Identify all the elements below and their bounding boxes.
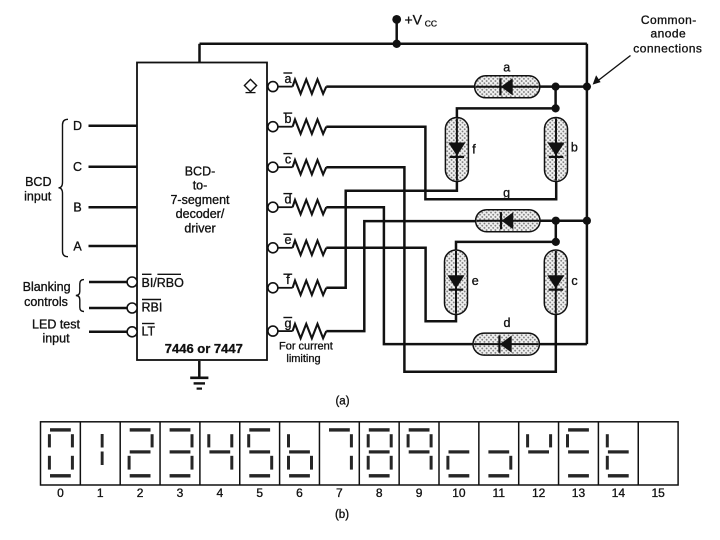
svg-text:decoder/: decoder/ <box>176 207 225 221</box>
svg-text:CC: CC <box>425 19 437 29</box>
svg-text:a: a <box>503 61 510 75</box>
svg-text:b: b <box>571 140 578 154</box>
svg-text:f: f <box>472 143 476 157</box>
svg-text:13: 13 <box>572 486 586 500</box>
svg-text:input: input <box>42 332 70 346</box>
svg-text:B: B <box>73 201 81 215</box>
svg-text:f: f <box>286 273 290 287</box>
svg-text:RBI: RBI <box>142 301 163 315</box>
svg-text:e: e <box>285 233 292 247</box>
svg-text:3: 3 <box>177 486 184 500</box>
svg-text:A: A <box>73 239 82 253</box>
svg-text:b: b <box>285 112 292 126</box>
svg-text:LED test: LED test <box>32 317 80 331</box>
svg-text:D: D <box>73 119 82 133</box>
svg-text:6: 6 <box>296 486 303 500</box>
svg-text:BCD-: BCD- <box>185 164 216 178</box>
svg-text:7446 or 7447: 7446 or 7447 <box>165 341 243 356</box>
svg-text:9: 9 <box>416 486 423 500</box>
svg-text:Common-: Common- <box>641 13 697 27</box>
svg-text:Blanking: Blanking <box>23 280 71 294</box>
svg-text:BI/RBO: BI/RBO <box>142 276 185 290</box>
svg-text:4: 4 <box>216 486 223 500</box>
svg-text:LT: LT <box>142 325 156 339</box>
svg-text:controls: controls <box>24 295 68 309</box>
svg-text:8: 8 <box>376 486 383 500</box>
svg-text:2: 2 <box>137 486 144 500</box>
svg-text:e: e <box>472 274 479 288</box>
svg-text:a: a <box>285 72 292 86</box>
svg-text:to-: to- <box>193 179 208 193</box>
svg-text:(a): (a) <box>335 395 349 407</box>
svg-text:g: g <box>285 317 292 331</box>
svg-text:input: input <box>24 190 52 204</box>
svg-text:c: c <box>571 274 577 288</box>
svg-text:5: 5 <box>256 486 263 500</box>
svg-text:0: 0 <box>57 486 64 500</box>
svg-text:connections: connections <box>633 41 702 55</box>
svg-text:+V: +V <box>405 12 423 28</box>
svg-text:driver: driver <box>184 222 215 236</box>
svg-text:g: g <box>503 186 510 200</box>
svg-text:1: 1 <box>97 486 104 500</box>
svg-text:BCD: BCD <box>25 175 51 189</box>
svg-text:15: 15 <box>651 486 665 500</box>
svg-text:d: d <box>285 193 292 207</box>
svg-text:(b): (b) <box>335 509 349 521</box>
svg-text:12: 12 <box>532 486 546 500</box>
svg-text:For current: For current <box>279 341 333 353</box>
svg-text:C: C <box>73 160 82 174</box>
svg-text:7-segment: 7-segment <box>170 193 230 207</box>
svg-text:c: c <box>285 153 291 167</box>
svg-text:11: 11 <box>493 486 506 500</box>
svg-text:anode: anode <box>650 27 686 41</box>
svg-text:10: 10 <box>452 486 466 500</box>
svg-text:d: d <box>504 316 511 330</box>
svg-text:limiting: limiting <box>286 353 320 365</box>
svg-text:7: 7 <box>336 486 343 500</box>
svg-text:14: 14 <box>612 486 626 500</box>
